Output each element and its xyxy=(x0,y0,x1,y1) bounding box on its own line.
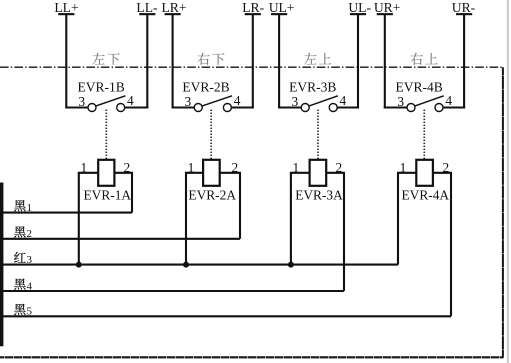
svg-text:EVR-3A: EVR-3A xyxy=(295,188,343,203)
svg-text:UL+: UL+ xyxy=(269,0,295,15)
svg-text:4: 4 xyxy=(234,93,241,108)
svg-text:UR+: UR+ xyxy=(374,0,401,15)
svg-text:2: 2 xyxy=(123,160,130,175)
svg-text:EVR-1A: EVR-1A xyxy=(83,188,131,203)
svg-text:3: 3 xyxy=(292,94,299,109)
svg-text:LR+: LR+ xyxy=(161,0,186,15)
svg-text:3: 3 xyxy=(185,94,192,109)
svg-text:UR-: UR- xyxy=(452,0,476,15)
svg-text:1: 1 xyxy=(293,160,300,175)
svg-text:2: 2 xyxy=(335,160,342,175)
svg-text:EVR-3B: EVR-3B xyxy=(289,79,336,94)
svg-text:1: 1 xyxy=(400,160,407,175)
svg-text:3: 3 xyxy=(397,94,404,109)
svg-text:1: 1 xyxy=(27,202,33,214)
svg-text:EVR-1B: EVR-1B xyxy=(77,79,124,94)
svg-text:LL+: LL+ xyxy=(54,0,78,15)
svg-text:1: 1 xyxy=(188,160,195,175)
svg-text:LL-: LL- xyxy=(136,0,158,15)
svg-text:5: 5 xyxy=(27,306,33,318)
svg-text:EVR-2B: EVR-2B xyxy=(182,79,229,94)
svg-text:4: 4 xyxy=(27,280,33,292)
svg-text:4: 4 xyxy=(127,93,134,108)
svg-text:3: 3 xyxy=(78,94,85,109)
svg-text:2: 2 xyxy=(442,160,449,175)
svg-text:2: 2 xyxy=(27,228,33,240)
svg-text:EVR-4A: EVR-4A xyxy=(401,188,449,203)
svg-text:3: 3 xyxy=(27,254,33,266)
svg-text:LR-: LR- xyxy=(242,0,264,15)
svg-text:EVR-4B: EVR-4B xyxy=(395,79,442,94)
svg-text:2: 2 xyxy=(231,160,238,175)
svg-text:1: 1 xyxy=(80,160,87,175)
svg-text:4: 4 xyxy=(340,93,347,108)
svg-text:EVR-2A: EVR-2A xyxy=(188,188,236,203)
svg-text:4: 4 xyxy=(445,93,452,108)
svg-text:UL-: UL- xyxy=(348,0,371,15)
